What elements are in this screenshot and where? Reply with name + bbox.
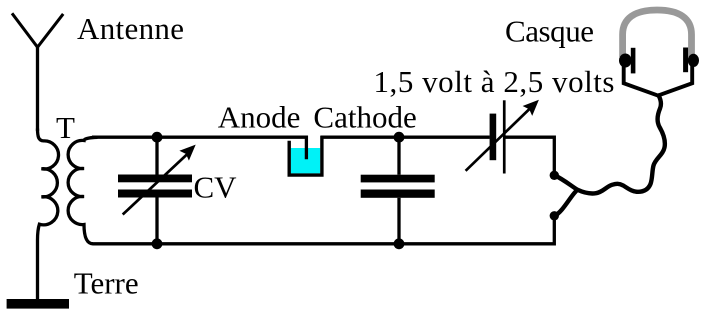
- svg-text:T: T: [56, 110, 75, 145]
- svg-text:Casque: Casque: [505, 13, 594, 48]
- node terminal bottom: [550, 211, 559, 220]
- headphones right earpiece: [688, 54, 699, 67]
- wire CV branch: [155, 137, 158, 244]
- wire bottom: [93, 216, 555, 244]
- capacitor CV plates: [118, 175, 192, 183]
- svg-text:CV: CV: [194, 170, 238, 205]
- node top C1 junction: [394, 132, 405, 143]
- capacitor C1 plates: [361, 175, 435, 183]
- node terminal top: [550, 171, 559, 180]
- wire headphone cord: [555, 96, 665, 216]
- antenna: [12, 13, 63, 47]
- variable capacitor C2 thin plate: [503, 100, 506, 173]
- wire antenna feed: [36, 45, 39, 132]
- transformer secondary L2: [68, 137, 97, 244]
- svg-text:Cathode: Cathode: [313, 99, 416, 134]
- transformer primary L1: [38, 129, 59, 301]
- svg-text:Anode: Anode: [218, 99, 301, 134]
- wire C1 branch: [397, 137, 400, 244]
- node bottom C1 junction: [394, 238, 405, 249]
- headphones left earpiece: [619, 54, 632, 68]
- capacitor CV arrow: [123, 153, 189, 215]
- wire top (coil to anode, with anode dip): [92, 137, 306, 159]
- detector cup (cathode): [289, 136, 322, 175]
- ground: [7, 299, 69, 309]
- svg-text:Terre: Terre: [74, 266, 139, 301]
- detector liquid: [291, 148, 320, 173]
- node bottom CV junction: [152, 238, 163, 249]
- wire top right (C2 to top terminal): [504, 137, 554, 175]
- node top CV junction: [152, 132, 163, 143]
- variable capacitor C2 thick plate: [490, 114, 497, 161]
- headphones band: [623, 10, 692, 57]
- svg-text:1,5 volt à 2,5 volts: 1,5 volt à 2,5 volts: [374, 64, 615, 99]
- wire top (cathode to varcap C2): [321, 136, 490, 139]
- svg-text:Antenne: Antenne: [77, 11, 184, 46]
- headphones yoke: [624, 65, 693, 96]
- variable capacitor C2 arrow: [466, 108, 531, 171]
